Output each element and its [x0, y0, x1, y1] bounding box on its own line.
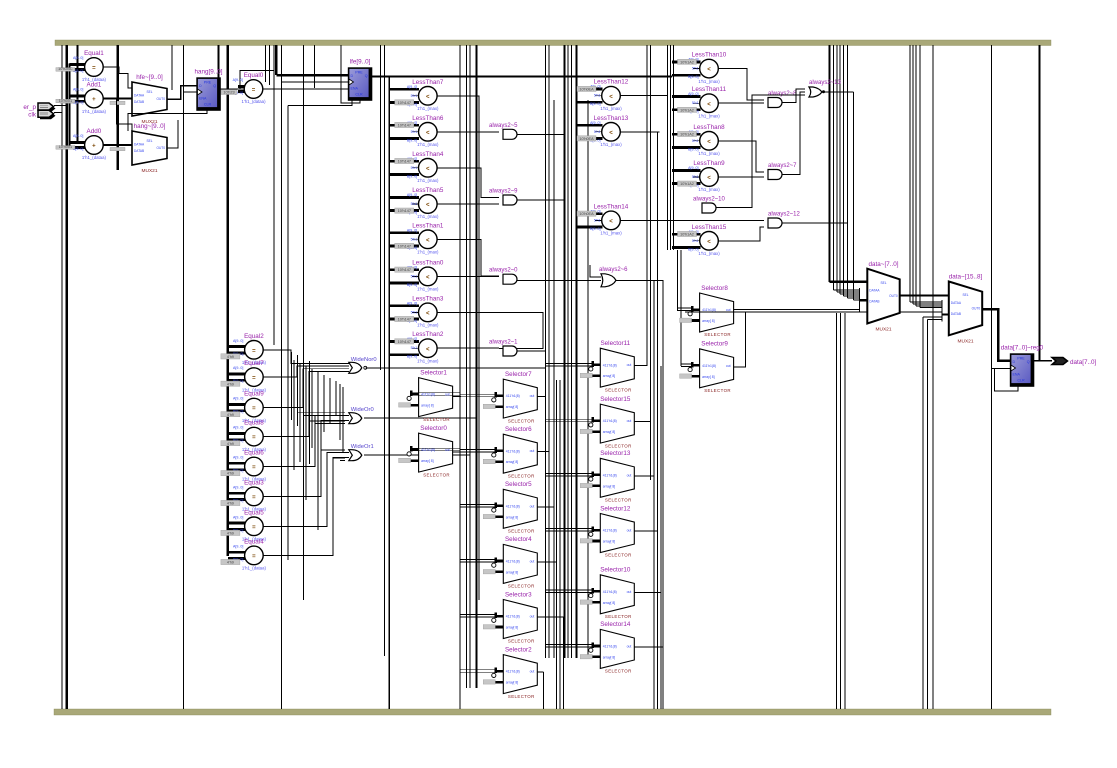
wire selector0 out — [453, 451, 467, 453]
selector Selector10 — [546, 567, 635, 619]
AND gate always2~9 — [489, 189, 518, 206]
wire mux1 out — [982, 309, 1011, 361]
wire mux0 comb in — [840, 293, 860, 295]
svg-text:10'h147: 10'h147 — [398, 268, 411, 272]
svg-text:MUX21: MUX21 — [958, 338, 974, 344]
svg-text:=: = — [252, 406, 256, 412]
wire er_p — [54, 104, 67, 106]
svg-text:5'h1: 5'h1 — [411, 346, 418, 350]
wire equal fan — [263, 371, 349, 436]
svg-text:B[9..0]: B[9..0] — [407, 138, 417, 142]
operator LessThan0 — [389, 259, 443, 291]
wire v588 — [587, 100, 589, 658]
wire v384 — [384, 45, 386, 656]
wire v77 — [77, 45, 79, 142]
svg-text:out: out — [530, 670, 535, 674]
selector Selector0 — [399, 425, 460, 477]
wire and0 out — [517, 279, 601, 281]
operator Equal3 — [221, 479, 267, 511]
wire v840 — [839, 45, 841, 294]
wire add1 out — [103, 97, 132, 99]
svg-text:Add0: Add0 — [87, 128, 102, 135]
svg-text:A[9..0]: A[9..0] — [73, 56, 83, 60]
svg-text:CLR: CLR — [355, 93, 363, 97]
selector Selector8 — [678, 285, 734, 337]
svg-text:<: < — [707, 67, 711, 73]
wire v273 — [273, 45, 275, 345]
wire Selector5 out — [537, 506, 554, 508]
selector Selector13 — [546, 450, 635, 502]
svg-text:SELECTOR: SELECTOR — [508, 473, 535, 478]
wire mux1 comb in — [910, 301, 942, 303]
operator LessThan10 — [672, 52, 727, 84]
wire and12 out — [782, 222, 848, 224]
svg-text:Equal5: Equal5 — [244, 509, 264, 516]
wire fan riser — [317, 372, 319, 530]
wire Selector7 out — [537, 396, 545, 398]
wire lessthan11 out — [718, 102, 764, 104]
svg-text:1'h1_(max): 1'h1_(max) — [417, 106, 439, 111]
svg-text:411'h1(8): 411'h1(8) — [603, 473, 617, 477]
svg-text:SEL: SEL — [880, 281, 886, 285]
svg-text:4'h9: 4'h9 — [227, 413, 234, 417]
AND gate always2~0 — [489, 268, 518, 285]
AND gate always2~5 — [489, 123, 518, 140]
wire v927 — [927, 320, 929, 710]
svg-text:5'h1: 5'h1 — [411, 310, 418, 314]
svg-text:ENA: ENA — [1013, 373, 1021, 377]
wire equal fan — [263, 458, 349, 556]
wire v847 — [847, 45, 849, 298]
svg-text:10'h147: 10'h147 — [398, 101, 411, 105]
wire fan riser — [342, 387, 344, 452]
svg-text:411'h1(8): 411'h1(8) — [603, 645, 617, 649]
top rail bar — [55, 40, 1051, 46]
wire mux0 out to mux1 sel — [900, 294, 949, 296]
svg-text:Equal7: Equal7 — [244, 360, 264, 367]
svg-text:10'h147: 10'h147 — [398, 245, 411, 249]
svg-text:411'h1(8): 411'h1(8) — [506, 394, 520, 398]
svg-text:Selector8: Selector8 — [701, 285, 728, 292]
wire hang reg clk — [184, 91, 198, 93]
selector Selector6 — [460, 426, 538, 478]
svg-text:data~[15..8]: data~[15..8] — [949, 274, 983, 281]
wire v931 — [932, 45, 934, 709]
svg-text:B[9..0]: B[9..0] — [688, 147, 698, 151]
svg-text:<: < — [426, 203, 430, 209]
wire lfe bottom stub — [341, 82, 360, 103]
wire v667 — [667, 45, 669, 250]
wire v657 — [657, 132, 659, 709]
svg-text:1'h1_(max): 1'h1_(max) — [600, 231, 622, 236]
svg-text:out: out — [627, 363, 632, 367]
svg-text:array[ 8]: array[ 8] — [603, 374, 615, 378]
svg-text:A[9..0]: A[9..0] — [407, 228, 417, 232]
wire v69 input riser — [68, 64, 70, 147]
svg-text:1'h1_(max): 1'h1_(max) — [417, 214, 439, 219]
operator LessThan12 — [577, 79, 629, 111]
svg-text:OUT0: OUT0 — [156, 97, 165, 101]
selector Selector12 — [546, 505, 635, 557]
svg-text:out: out — [530, 449, 535, 453]
wire fan feed — [340, 460, 345, 462]
svg-text:1'h1_(max): 1'h1_(max) — [698, 251, 720, 256]
wire v1039 — [1039, 45, 1041, 361]
svg-text:MUX21: MUX21 — [142, 168, 158, 174]
svg-text:array[ 8]: array[ 8] — [603, 484, 615, 488]
wire equal fan — [263, 420, 349, 496]
wire Selector13 out — [634, 475, 654, 477]
register lfe[9..0] — [348, 59, 373, 101]
svg-text:1'h1_(max): 1'h1_(max) — [600, 142, 622, 147]
mux data~[15..8] — [949, 274, 983, 345]
svg-text:out: out — [627, 419, 632, 423]
svg-text:10'h147: 10'h147 — [398, 124, 411, 128]
svg-text:411'h1(8): 411'h1(8) — [603, 363, 617, 367]
wire lfe feedback — [288, 100, 352, 106]
svg-text:array[ 8]: array[ 8] — [603, 655, 615, 659]
svg-text:hang[9..0]: hang[9..0] — [194, 69, 222, 76]
wire and10 out — [716, 95, 805, 208]
wire lfe clk — [282, 81, 349, 83]
wire v845b — [844, 313, 846, 709]
wire selector9 out — [734, 312, 746, 367]
operator LessThan13 — [577, 115, 629, 147]
wire v647 — [646, 45, 648, 366]
wire or6 out — [616, 279, 663, 281]
svg-text:1'h1_(max): 1'h1_(max) — [698, 187, 720, 192]
wire fan feed — [327, 452, 345, 454]
wire and9 out — [517, 199, 565, 201]
svg-text:+: + — [92, 144, 96, 150]
operator Equal5 — [221, 509, 267, 541]
svg-text:data[7..0]: data[7..0] — [1070, 359, 1097, 366]
svg-text:array[ 8]: array[ 8] — [506, 460, 518, 464]
wire v556 — [555, 380, 557, 709]
wire v288 lfe feedback — [287, 106, 289, 561]
svg-text:B[9..0]: B[9..0] — [590, 227, 600, 231]
svg-text:Q: Q — [365, 74, 368, 78]
svg-text:out: out — [445, 393, 450, 397]
gate WideOr0 — [349, 407, 374, 424]
svg-text:=: = — [252, 435, 256, 441]
svg-text:Selector9: Selector9 — [701, 341, 728, 348]
svg-text:1'h1_(max): 1'h1_(max) — [600, 106, 622, 111]
bottom rail bar — [54, 709, 1051, 715]
svg-text:10'h23: 10'h23 — [223, 91, 234, 95]
wire mux1 comb in — [913, 303, 942, 305]
svg-text:411'h1(8): 411'h1(8) — [506, 449, 520, 453]
svg-text:1'h1_(max): 1'h1_(max) — [698, 79, 720, 84]
wire mux0 comb bar — [859, 288, 861, 312]
operator LessThan15 — [672, 224, 727, 256]
gate WideOr1 — [349, 444, 374, 461]
svg-text:always2~8: always2~8 — [768, 91, 797, 97]
svg-text:5'h1: 5'h1 — [692, 239, 699, 243]
operator LessThan6 — [389, 115, 443, 147]
svg-text:B[9..0]: B[9..0] — [688, 75, 698, 79]
svg-text:SELECTOR: SELECTOR — [508, 418, 535, 423]
svg-text:5'h1: 5'h1 — [692, 175, 699, 179]
svg-text:Selector4: Selector4 — [505, 536, 532, 543]
operator Equal6 — [221, 450, 267, 482]
svg-text:5'h1: 5'h1 — [692, 67, 699, 71]
output pin data[7..0] — [1052, 358, 1097, 367]
svg-text:A[9..0]: A[9..0] — [233, 544, 243, 548]
operator LessThan2 — [389, 331, 443, 363]
svg-text:SELECTOR: SELECTOR — [605, 669, 632, 674]
svg-text:array[ 8]: array[ 8] — [702, 375, 714, 379]
svg-text:<: < — [426, 311, 430, 317]
svg-text:A[9..0]: A[9..0] — [233, 485, 243, 489]
svg-text:<: < — [707, 102, 711, 108]
wire or6 in — [590, 265, 601, 277]
wire fan riser — [309, 361, 311, 464]
svg-text:out: out — [627, 473, 632, 477]
wire v466 — [466, 45, 468, 688]
svg-text:array[ 8]: array[ 8] — [702, 319, 714, 323]
wire mux1 comb bar — [941, 300, 943, 322]
svg-text:SELECTOR: SELECTOR — [704, 388, 731, 393]
svg-text:<: < — [426, 94, 430, 100]
operator LessThan11 — [672, 86, 727, 118]
selector Selector5 — [460, 481, 538, 533]
mux hfe~[9..0] — [132, 74, 167, 125]
svg-text:A[9..0]: A[9..0] — [233, 78, 243, 82]
svg-text:5'h1: 5'h1 — [594, 218, 601, 222]
svg-text:5'h1: 5'h1 — [411, 166, 418, 170]
wire lessthan5 out — [437, 203, 499, 205]
svg-text:A[9..0]: A[9..0] — [233, 456, 243, 460]
svg-text:5'h1: 5'h1 — [594, 94, 601, 98]
wire equal fan — [263, 416, 349, 467]
svg-text:A[9..0]: A[9..0] — [688, 92, 698, 96]
wire mux hfe out to hang reg — [167, 86, 198, 99]
svg-text:always2~12: always2~12 — [768, 212, 801, 218]
svg-text:out: out — [530, 394, 535, 398]
svg-text:<: < — [426, 275, 430, 281]
svg-text:B[9..0]: B[9..0] — [590, 102, 600, 106]
svg-text:<: < — [707, 239, 711, 245]
svg-text:1'h1_(dataa): 1'h1_(dataa) — [82, 109, 107, 114]
wire v545 — [545, 45, 547, 658]
operator LessThan5 — [389, 187, 443, 219]
wire fan riser — [297, 355, 299, 426]
selector Selector4 — [460, 536, 538, 588]
wire lfe out bus — [371, 75, 673, 77]
OR gate always2~13 — [809, 80, 842, 97]
svg-text:hfe~[9..0]: hfe~[9..0] — [136, 74, 163, 81]
wire v380 — [380, 45, 382, 370]
wire and5 out — [517, 133, 565, 135]
svg-text:B[9..0]: B[9..0] — [407, 355, 417, 359]
wire v571 — [570, 45, 572, 658]
svg-text:=: = — [252, 465, 256, 471]
svg-text:10'h0EA: 10'h0EA — [579, 137, 594, 141]
svg-text:D: D — [351, 74, 354, 78]
svg-text:Equal4: Equal4 — [244, 538, 264, 545]
wire v650 — [650, 45, 652, 480]
svg-text:DATAA: DATAA — [951, 301, 962, 305]
svg-text:SEL: SEL — [962, 293, 968, 297]
svg-text:5'h1: 5'h1 — [411, 237, 418, 241]
wire v478 — [478, 96, 480, 600]
svg-text:array[ 8]: array[ 8] — [506, 681, 518, 685]
const box add1 out — [110, 101, 125, 104]
wire mux1 comb in — [920, 307, 942, 309]
svg-text:SELECTOR: SELECTOR — [605, 553, 632, 558]
wire v560 — [559, 380, 561, 709]
wire lessthan4 out — [437, 168, 499, 198]
svg-text:array[ 8]: array[ 8] — [506, 570, 518, 574]
wire v543 sel2 out — [543, 672, 545, 709]
svg-text:10'h147: 10'h147 — [398, 160, 411, 164]
wire fan feed — [298, 412, 346, 414]
svg-text:WideOr0: WideOr0 — [351, 407, 374, 413]
svg-text:A[9..0]: A[9..0] — [73, 88, 83, 92]
svg-text:A[9..0]: A[9..0] — [590, 121, 600, 125]
wire lessthan7 out — [437, 96, 479, 132]
svg-text:PRE: PRE — [204, 80, 212, 84]
svg-text:10'h147: 10'h147 — [398, 340, 411, 344]
svg-text:array[ 8]: array[ 8] — [603, 540, 615, 544]
svg-text:DATAA: DATAA — [134, 93, 145, 97]
svg-text:10'h001: 10'h001 — [59, 99, 72, 103]
svg-text:D: D — [1013, 360, 1016, 364]
svg-text:out: out — [445, 448, 450, 452]
AND gate always2~10 — [693, 197, 726, 214]
svg-text:5'h1: 5'h1 — [411, 130, 418, 134]
svg-text:array[ 8]: array[ 8] — [421, 404, 433, 408]
svg-text:A[9..0]: A[9..0] — [407, 85, 417, 89]
svg-text:<: < — [426, 238, 430, 244]
wire mux hang out — [167, 120, 178, 148]
svg-text:A[9..0]: A[9..0] — [407, 193, 417, 197]
svg-text:Equal3: Equal3 — [244, 479, 264, 486]
svg-text:10'h0EA: 10'h0EA — [579, 212, 594, 216]
svg-text:Selector15: Selector15 — [600, 396, 631, 403]
OR gate always2~6 — [599, 267, 628, 287]
wire v833 — [833, 45, 835, 290]
svg-text:10'h2BC: 10'h2BC — [58, 67, 73, 71]
svg-text:ENA: ENA — [199, 97, 207, 101]
input pin clk — [28, 110, 55, 119]
wire v919 — [919, 45, 921, 308]
operator LessThan7 — [389, 79, 443, 111]
wire Selector15 out — [634, 421, 650, 423]
operator Add0 — [56, 128, 107, 160]
wire lessthan0 out — [437, 275, 499, 277]
wire v564 — [563, 45, 565, 658]
wire v563 sel3 out — [562, 617, 564, 709]
wire equal0 out to lfe ena — [263, 88, 349, 90]
wire add0 out — [103, 144, 132, 146]
wire hang riser to lfe bus — [240, 69, 274, 71]
svg-text:always2~5: always2~5 — [489, 123, 518, 129]
svg-text:er_p: er_p — [23, 104, 36, 111]
svg-text:Selector14: Selector14 — [600, 621, 631, 628]
svg-text:Q: Q — [213, 84, 216, 88]
svg-text:out: out — [530, 615, 535, 619]
wire v470 — [469, 45, 471, 688]
selector Selector3 — [460, 591, 538, 643]
wire selector8 out a — [734, 309, 860, 311]
wire fan riser — [335, 381, 337, 416]
svg-text:OUT0: OUT0 — [156, 146, 165, 150]
wire mux1 comb up a — [923, 316, 942, 318]
svg-text:4'h9: 4'h9 — [227, 532, 234, 536]
operator LessThan8 — [672, 124, 725, 156]
wire fan feed — [310, 420, 346, 422]
operator LessThan1 — [389, 222, 443, 254]
svg-text:data[7..0]~reg0: data[7..0]~reg0 — [1001, 345, 1044, 352]
wire v281 — [281, 45, 283, 709]
wire fan feed — [304, 415, 346, 417]
svg-text:Equal2: Equal2 — [244, 333, 264, 340]
wire hang reg out — [219, 88, 244, 90]
svg-text:SELECTOR: SELECTOR — [605, 387, 632, 392]
svg-text:clk: clk — [28, 111, 37, 118]
svg-text:10'h147: 10'h147 — [398, 209, 411, 213]
wire Selector12 out — [634, 530, 657, 532]
wire v389 lfe distribution — [388, 77, 390, 710]
svg-text:1'h1_(dataa): 1'h1_(dataa) — [82, 155, 107, 160]
wire v677 sel8 feed — [677, 250, 679, 311]
svg-text:always2~9: always2~9 — [489, 189, 518, 195]
svg-text:<: < — [426, 347, 430, 353]
svg-text:5'h1: 5'h1 — [411, 274, 418, 278]
mux data~[7..0] — [867, 261, 899, 333]
operator Equal9 — [221, 391, 267, 423]
wire data reg feedback — [995, 369, 1019, 392]
wire lessthan15 out — [718, 227, 764, 241]
wire v303 — [302, 45, 304, 600]
svg-text:SELECTOR: SELECTOR — [605, 498, 632, 503]
svg-text:Equal1: Equal1 — [84, 50, 104, 57]
wire lessthan3 out — [437, 312, 543, 348]
wire Selector3 out — [537, 616, 563, 618]
wire v460 — [459, 45, 461, 709]
wire fan riser — [303, 358, 305, 458]
svg-text:10'h147: 10'h147 — [398, 318, 411, 322]
AND gate always2~7 — [768, 163, 797, 180]
AND gate always2~12 — [768, 212, 801, 229]
wire v172 — [171, 45, 173, 90]
wire v992 — [990, 45, 992, 709]
svg-text:<: < — [707, 176, 711, 182]
svg-text:ENA: ENA — [351, 87, 359, 91]
svg-text:411'h1(8): 411'h1(8) — [506, 615, 520, 619]
wire equal fan — [263, 366, 349, 377]
svg-text:SELECTOR: SELECTOR — [508, 639, 535, 644]
wire v183 — [183, 45, 185, 709]
svg-text:array[ 8]: array[ 8] — [506, 626, 518, 630]
wire fan riser — [329, 378, 331, 424]
svg-text:Selector13: Selector13 — [600, 450, 631, 457]
selector Selector7 — [460, 371, 538, 423]
wire v314 — [314, 45, 316, 88]
svg-text:SELECTOR: SELECTOR — [508, 694, 535, 699]
svg-text:411'h1(8): 411'h1(8) — [506, 504, 520, 508]
svg-text:1'h1_(max): 1'h1_(max) — [417, 142, 439, 147]
svg-text:array[ 8]: array[ 8] — [603, 430, 615, 434]
operator Equal2 — [221, 333, 267, 365]
svg-text:SELECTOR: SELECTOR — [423, 472, 450, 477]
svg-text:Selector10: Selector10 — [600, 567, 631, 574]
selector Selector1 — [399, 369, 460, 421]
svg-text:B[9..0]: B[9..0] — [407, 283, 417, 287]
wire v576 — [576, 45, 578, 658]
